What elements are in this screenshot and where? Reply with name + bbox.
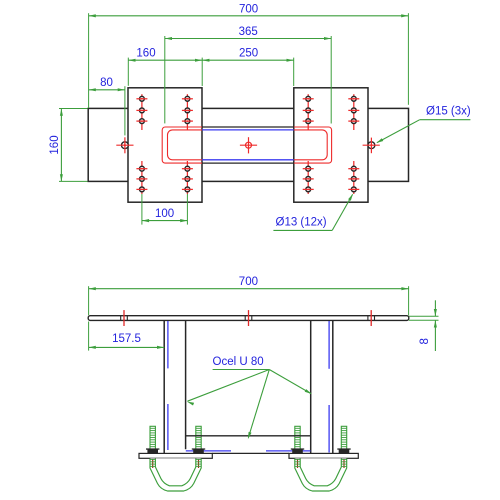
top view: visible channel edge top (black) <box>202 126 294 128</box>
svg-text:160: 160 <box>136 48 155 60</box>
dim 365 <box>165 38 331 40</box>
top view: hidden slot outer outline right (red) <box>294 127 332 163</box>
svg-text:Ø13 (12x): Ø13 (12x) <box>276 216 327 228</box>
bolt holes dia13 (12x) with red center marks <box>141 94 143 130</box>
front view: hole centerline ticks (red) <box>123 310 125 326</box>
svg-text:8: 8 <box>419 338 431 344</box>
svg-text:80: 80 <box>100 77 113 89</box>
U-bolt nuts and washers <box>146 448 159 449</box>
U-bolt thread marks below plate <box>152 459 154 468</box>
dim 80 <box>89 89 125 91</box>
dim 100 (hole spacing) <box>142 220 188 222</box>
top view: hidden slot inner outline right (red) <box>294 130 327 160</box>
front view: right channel inner edge <box>310 320 312 453</box>
top view: hidden flange edge bottom (blue) <box>202 159 294 161</box>
front view: left channel hidden line (blue) <box>167 321 169 368</box>
svg-text:157.5: 157.5 <box>112 333 141 345</box>
top view: hidden flange edge top (blue) <box>202 129 294 131</box>
svg-text:160: 160 <box>49 135 61 154</box>
front view: channel bottom edge between channels <box>186 435 311 437</box>
svg-text:700: 700 <box>239 276 258 288</box>
front view: right channel outer edge <box>332 320 334 453</box>
front view: right channel hidden line (blue) <box>328 321 330 369</box>
dim 250 <box>202 59 294 61</box>
U-bolt threaded rod 3 <box>295 426 300 454</box>
right U-bolt bend <box>295 458 347 491</box>
left dia15 hole centerline (green) <box>124 86 126 135</box>
front view: hidden hole edges <box>120 316 122 321</box>
U-bolt threaded rod 4 <box>341 426 346 454</box>
top view: right clamp plate outline <box>294 88 368 202</box>
dim 700 (top view) <box>89 15 409 17</box>
right dia15 hole <box>368 142 375 149</box>
dim 700 (front view) <box>89 288 409 290</box>
U-bolt threaded rod 2 <box>196 426 201 454</box>
top view: left clamp plate outline <box>128 88 202 202</box>
top view: visible channel edge bottom (black) <box>202 162 294 164</box>
front view: hidden line at bottom plate (blue) <box>186 450 231 452</box>
front view: bottom clamp plates <box>139 453 212 458</box>
U-bolt threaded rod 1 <box>150 426 155 454</box>
svg-text:100: 100 <box>155 208 174 220</box>
left U-bolt bend <box>150 458 201 491</box>
svg-text:700: 700 <box>239 4 258 16</box>
svg-text:250: 250 <box>239 48 258 60</box>
svg-text:Ocel U 80: Ocel U 80 <box>213 356 264 368</box>
svg-text:365: 365 <box>239 26 258 38</box>
front view: left channel outer edge <box>163 320 165 453</box>
dim 160 (plate width) <box>128 59 202 61</box>
top view: base plate 700x160 outline <box>88 108 408 181</box>
dim 8 (plate thickness) <box>409 315 439 317</box>
top view: hidden slot inner outline left (red) <box>168 130 203 160</box>
front view: left channel inner edge <box>185 320 187 449</box>
dim 157.5 <box>89 346 165 348</box>
center dia15 hole (red) <box>246 142 252 148</box>
left dia15 hole <box>122 142 129 149</box>
top view: hidden slot outer outline left (red) <box>162 127 202 163</box>
front view: top plate 700x8 <box>88 316 409 321</box>
dim 160 vertical (left) <box>60 109 62 182</box>
svg-text:Ø15 (3x): Ø15 (3x) <box>426 106 471 118</box>
